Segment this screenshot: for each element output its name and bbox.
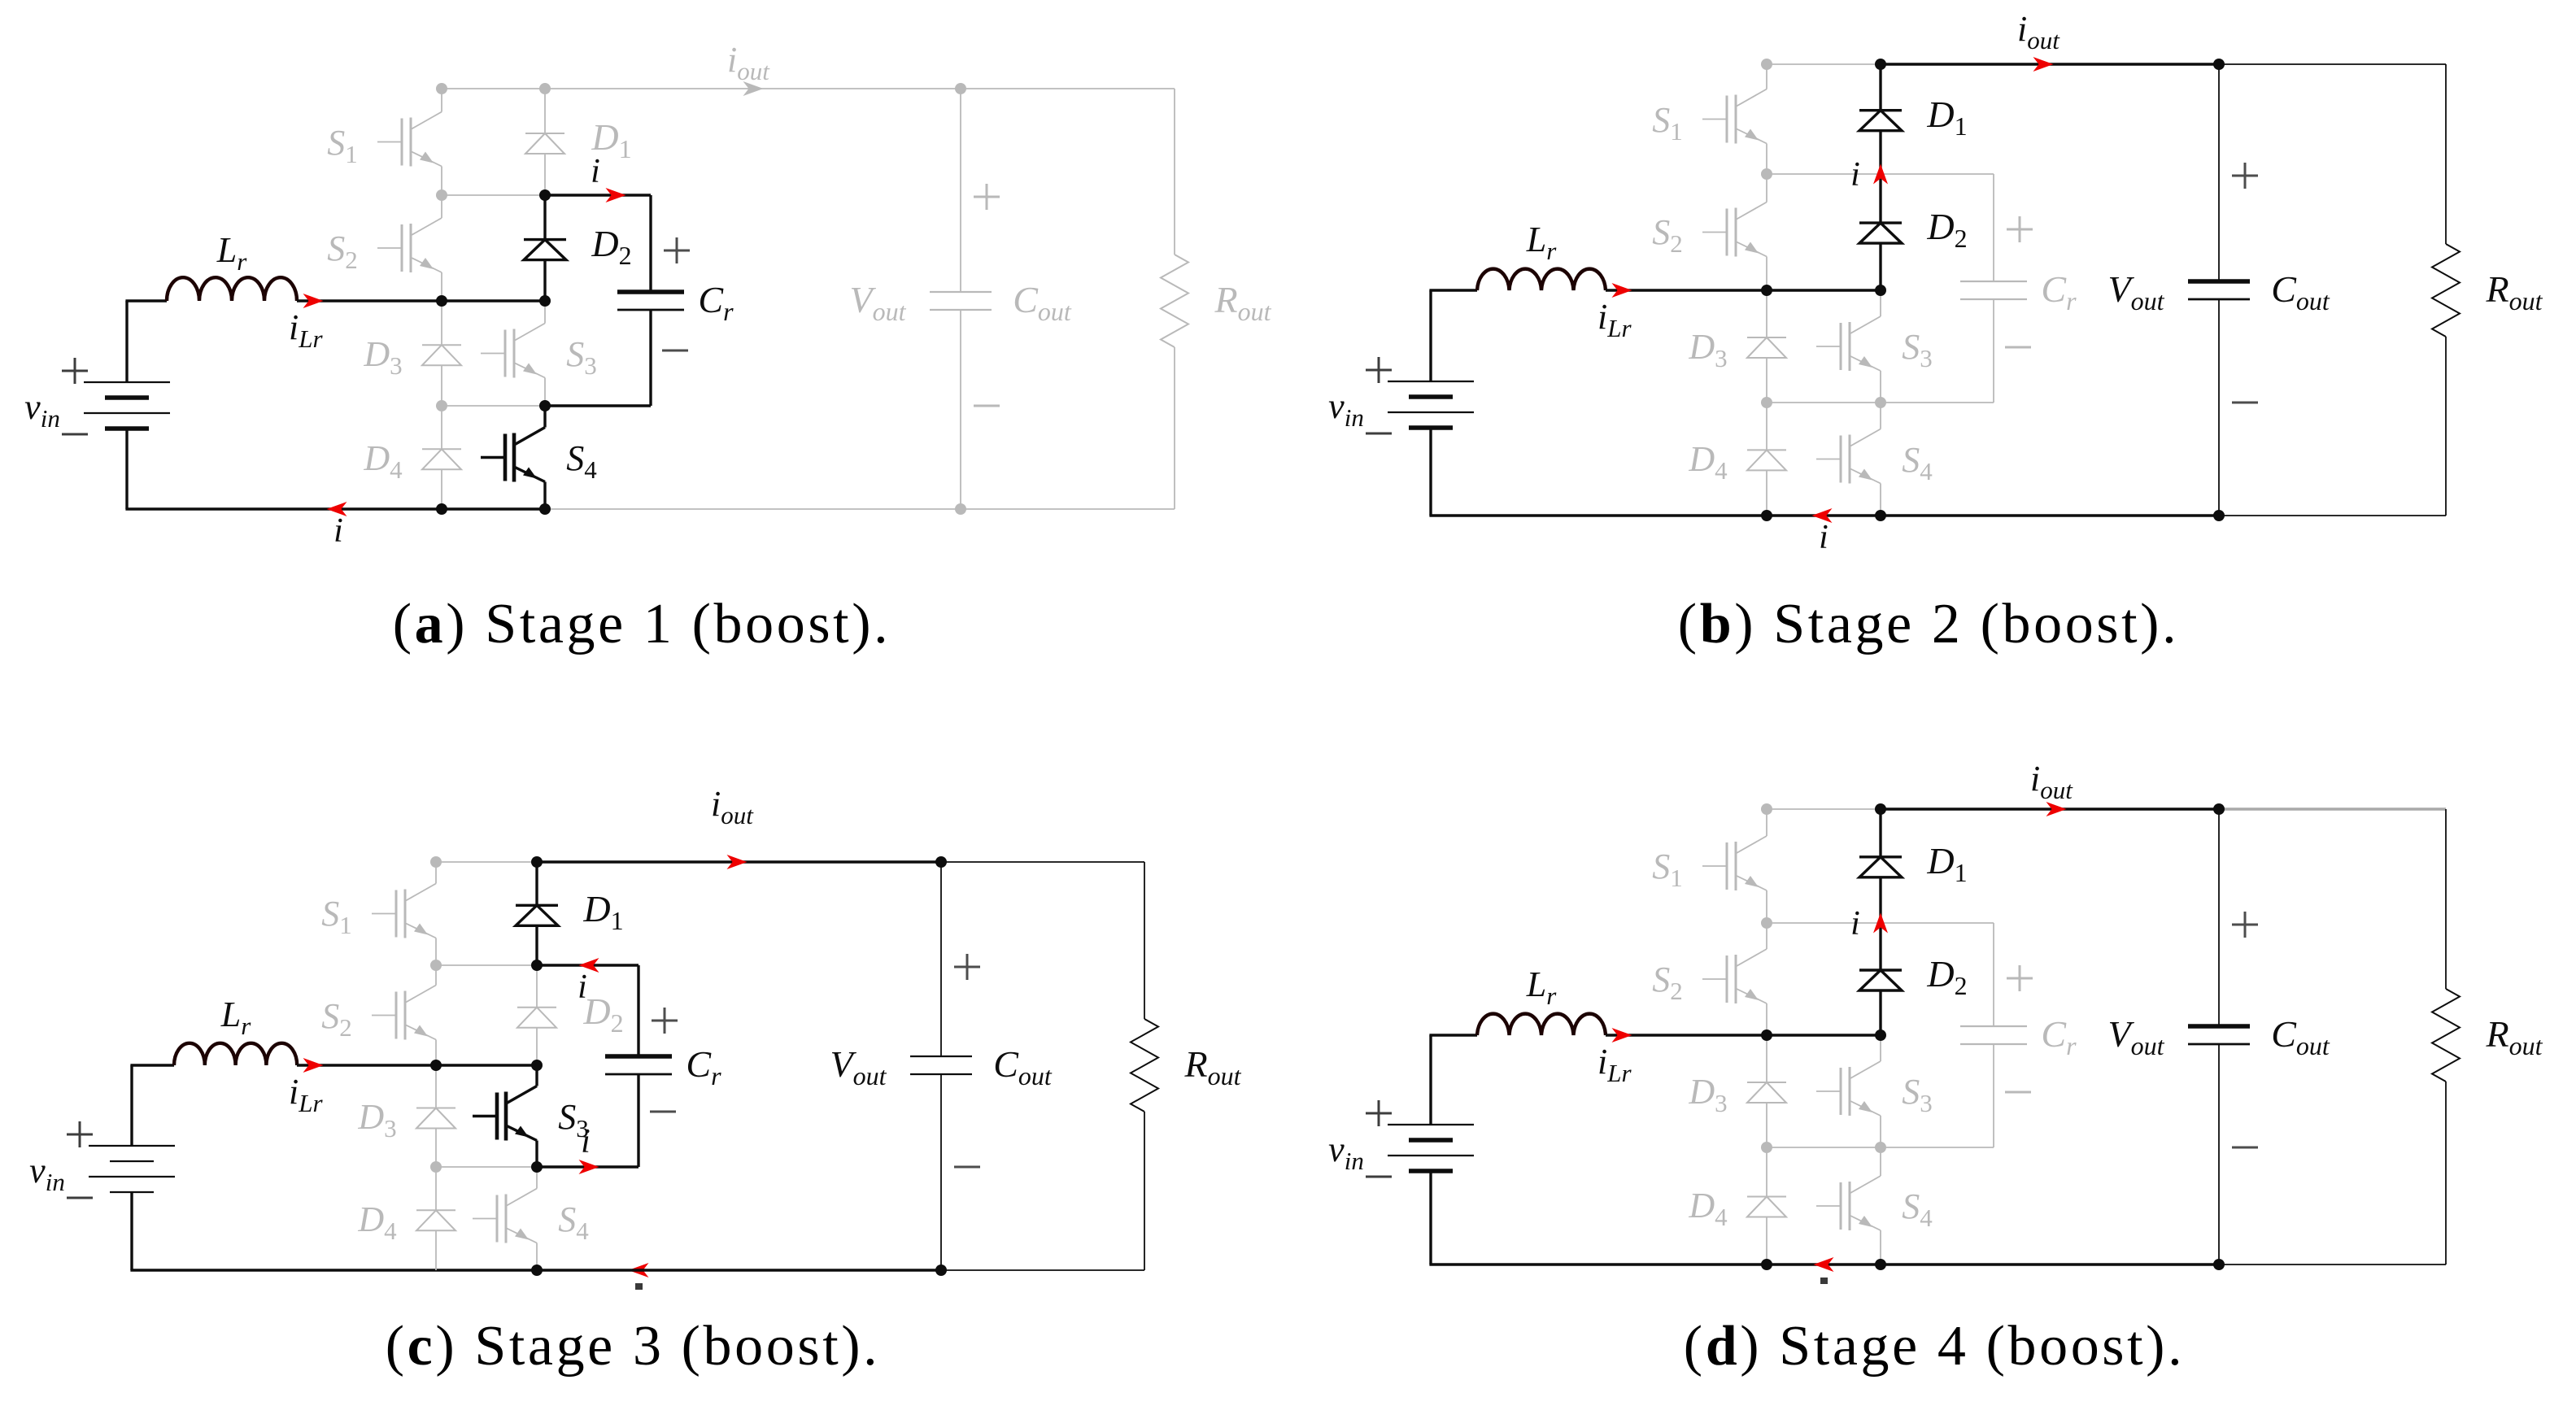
- minus sign at Cr (a): [662, 350, 688, 352]
- svg-text:S2: S2: [1652, 212, 1683, 258]
- row wire: S-column to D-column at S3-S4 junction (d): [1767, 1147, 1881, 1148]
- battery plus sign (a): [62, 358, 88, 384]
- svg-text:i: i: [1850, 905, 1860, 942]
- minus sign at Cr (b): [2005, 346, 2031, 349]
- top rail: S-column to D-column (b): [1767, 63, 1881, 65]
- wire: Cout column (a): [960, 89, 961, 292]
- plus sign at Cr (d): [2007, 965, 2033, 991]
- top rail: D-column to output (a): [545, 88, 961, 89]
- battery v_in (a): [84, 382, 170, 429]
- capacitor Cout (a): [930, 292, 992, 310]
- bottom rail: S-column to D-column (b): [1767, 514, 1881, 516]
- node row2 left (d): [1761, 917, 1772, 929]
- top rail: D-column to output (b): [1881, 63, 2219, 65]
- current arrow i_Lr (c): [303, 1058, 324, 1073]
- wire: load corner down to resistor (d): [2445, 809, 2447, 989]
- wire: load corner down to resistor (c): [1144, 862, 1145, 1019]
- bottom current arrow i (d): [1814, 1257, 1834, 1272]
- top rail: output to load corner (a): [961, 88, 1175, 89]
- wire: battery + terminal to inductor (a): [125, 301, 128, 382]
- transistor S4 (c): [473, 1171, 537, 1266]
- node row4 left (c): [430, 1161, 442, 1173]
- node top left (d): [1761, 803, 1772, 815]
- node bottom D-column (c): [531, 1265, 543, 1276]
- current arrow i_out (c): [727, 855, 748, 869]
- row wire: S-column to D-column at S3-S4 junction (a): [442, 405, 545, 407]
- svg-text:D1: D1: [582, 888, 623, 935]
- main wire: inductor to D-column (c): [297, 1064, 537, 1066]
- battery v_in (b): [1388, 381, 1474, 428]
- wire: load corner down to resistor (a): [1174, 89, 1175, 255]
- svg-text:Lr: Lr: [1526, 964, 1557, 1010]
- wire: battery + terminal to inductor (c): [130, 1065, 133, 1146]
- node bottom output (d): [2213, 1259, 2225, 1270]
- svg-text:S2: S2: [327, 229, 358, 274]
- capacitor Cr (d): [1960, 1026, 2027, 1044]
- svg-text:Cout: Cout: [2271, 1013, 2330, 1060]
- svg-text:iLr: iLr: [289, 1072, 323, 1117]
- node top left (b): [1761, 59, 1772, 70]
- battery plus sign (c): [67, 1121, 93, 1147]
- wire: resistor to bottom rail (b): [2445, 337, 2447, 516]
- svg-text:iout: iout: [2030, 759, 2073, 804]
- wire: Cout column (c): [940, 862, 942, 1056]
- wire: row to Cr top elbow (b): [1881, 173, 1994, 175]
- svg-text:D1: D1: [1926, 94, 1967, 141]
- node top output (b): [2213, 59, 2225, 70]
- wire: Cout column (d): [2218, 809, 2220, 1026]
- svg-text:Vout: Vout: [2108, 268, 2165, 316]
- bottom rail: output to load (c): [941, 1269, 1144, 1271]
- diode D2 (d): [1859, 923, 1902, 1035]
- svg-text:D4: D4: [1688, 439, 1728, 485]
- inductor Lr (b): [1477, 269, 1606, 290]
- row wire: S-column to D-column at D1-D2 junction (d): [1767, 922, 1881, 924]
- battery plus sign (d): [1366, 1100, 1392, 1126]
- node bottom output (c): [935, 1265, 947, 1276]
- wire: load corner down to resistor (b): [2445, 64, 2447, 244]
- svg-text:D1: D1: [1926, 840, 1967, 887]
- node row4 left (d): [1761, 1142, 1772, 1153]
- bottom rail: D-column to output (b): [1881, 514, 2219, 516]
- transistor S1 (d): [1702, 813, 1767, 919]
- bottom rail: battery to S-column (d): [1429, 1263, 1767, 1265]
- diode D3 (b): [1747, 290, 1786, 403]
- node top D-column (a): [539, 83, 551, 94]
- svg-text:S1: S1: [321, 894, 352, 939]
- minus sign at Cout (a): [974, 405, 1000, 407]
- transistor S3 (b): [1816, 294, 1881, 398]
- svg-text:vin: vin: [1328, 386, 1364, 432]
- svg-text:D3: D3: [357, 1097, 396, 1143]
- svg-text:Cr: Cr: [2041, 1013, 2077, 1060]
- svg-text:Cout: Cout: [1013, 279, 1072, 326]
- svg-text:Vout: Vout: [850, 279, 907, 326]
- transistor S1 (a): [377, 93, 442, 191]
- row wire: S-column to D-column at S3-S4 junction (c): [436, 1166, 537, 1168]
- current arrow i_Lr (a): [303, 294, 324, 308]
- svg-text:Rout: Rout: [1184, 1043, 1242, 1090]
- svg-text:Vout: Vout: [830, 1043, 887, 1090]
- main wire: inductor to D-column (d): [1606, 1034, 1881, 1036]
- diode D2 (a): [524, 195, 566, 301]
- diode D2 (c): [517, 965, 556, 1065]
- transistor S4 (b): [1816, 407, 1881, 511]
- node row4 D-column (b): [1875, 397, 1886, 408]
- svg-text:i: i: [578, 969, 587, 1006]
- svg-text:D4: D4: [1688, 1186, 1728, 1231]
- capacitor Cout (d): [2188, 1026, 2250, 1044]
- plus sign at Cout (c): [954, 954, 980, 980]
- diode D3 (c): [416, 1065, 455, 1167]
- svg-text:iLr: iLr: [1597, 1042, 1632, 1087]
- svg-text:i: i: [581, 1123, 591, 1160]
- svg-text:D2: D2: [1926, 206, 1967, 253]
- current arrow i at D1-D2 node (b): [1873, 164, 1888, 185]
- node top left (c): [430, 856, 442, 868]
- wire: resistor to bottom rail (c): [1144, 1112, 1145, 1270]
- svg-text:D4: D4: [363, 438, 403, 484]
- wire: D1-D2 node to Cr top elbow (c): [537, 964, 639, 966]
- svg-text:iout: iout: [727, 40, 770, 85]
- current arrow i_Lr (d): [1612, 1028, 1632, 1043]
- node bottom D-column (d): [1875, 1259, 1886, 1270]
- svg-text:S4: S4: [558, 1199, 589, 1245]
- plus sign at Cout (b): [2232, 163, 2258, 189]
- bottom rail: S-column to D-column (a): [442, 507, 545, 510]
- node row4 D-column (a): [539, 400, 551, 411]
- svg-text:Lr: Lr: [220, 995, 251, 1040]
- transistor S2 (a): [377, 199, 442, 297]
- node row4 D-column (d): [1875, 1142, 1886, 1153]
- transistor S1 (b): [1702, 68, 1767, 170]
- node bottom output (a): [955, 503, 966, 515]
- main wire: inductor to D-column (b): [1606, 289, 1881, 291]
- wire: battery - terminal to bottom rail (c): [130, 1192, 133, 1270]
- battery v_in (c): [89, 1146, 175, 1192]
- row wire: S-column to D-column at S3-S4 junction (b): [1767, 402, 1881, 403]
- bottom rail: S-column to D-column (c): [436, 1269, 537, 1271]
- inductor Lr (d): [1477, 1014, 1606, 1035]
- bottom current arrow i (b): [1812, 508, 1833, 523]
- svg-text:i: i: [1819, 519, 1828, 556]
- top rail: output to load corner (c): [941, 861, 1144, 863]
- minus sign at Cr (d): [2005, 1091, 2031, 1094]
- plus sign at Cr (c): [652, 1008, 678, 1034]
- top rail: output to load corner (d): [2219, 807, 2446, 810]
- svg-text:S1: S1: [1652, 100, 1683, 146]
- svg-text:Cr: Cr: [2041, 268, 2077, 316]
- node bottom left (a): [436, 503, 447, 515]
- node main D-column (d): [1875, 1029, 1886, 1041]
- row wire: S-column to D-column at D1-D2 junction (c): [436, 964, 537, 966]
- top rail: D-column to output (d): [1881, 807, 2219, 810]
- svg-text:D4: D4: [357, 1199, 397, 1245]
- top rail: S-column to D-column (c): [436, 861, 537, 863]
- wire: battery - terminal to bottom rail (d): [1429, 1171, 1432, 1265]
- wire: Cr bottom to S3-S4 node row (b): [1993, 299, 1994, 403]
- svg-text:Vout: Vout: [2108, 1013, 2165, 1060]
- svg-text:vin: vin: [29, 1151, 65, 1196]
- battery minus sign (c): [67, 1197, 93, 1199]
- wire: Cr bottom to S3-S4 node row (d): [1993, 1044, 1994, 1147]
- battery v_in (d): [1388, 1125, 1474, 1171]
- wire: resistor to bottom rail (d): [2445, 1082, 2447, 1265]
- svg-text:S4: S4: [1902, 440, 1933, 485]
- capacitor Cr (a): [617, 292, 684, 310]
- transistor S2 (c): [372, 969, 436, 1061]
- transistor S2 (b): [1702, 178, 1767, 286]
- plus sign at Cout (a): [974, 184, 1000, 210]
- diode D4 (c): [416, 1167, 455, 1270]
- resistor Rout (b): [2432, 244, 2460, 337]
- bottom rail: D-column to output (d): [1881, 1263, 2219, 1265]
- svg-text:D3: D3: [363, 334, 402, 380]
- svg-text:S3: S3: [1902, 327, 1933, 372]
- capacitor Cr (b): [1960, 281, 2027, 299]
- wire: battery - terminal to bottom rail (a): [125, 429, 128, 509]
- svg-text:S2: S2: [321, 996, 352, 1042]
- row wire: S-column to D-column at D1-D2 junction (b): [1767, 173, 1881, 175]
- top rail: S-column to D-column (d): [1767, 808, 1881, 810]
- svg-text:S1: S1: [327, 123, 358, 168]
- svg-text:S3: S3: [566, 334, 597, 380]
- node top D-column (c): [531, 856, 543, 868]
- bottom rail: battery to S-column (b): [1429, 514, 1767, 516]
- battery minus sign (a): [62, 433, 88, 436]
- node row2 left (b): [1761, 168, 1772, 180]
- svg-text:Cout: Cout: [2271, 268, 2330, 316]
- diode D4 (d): [1747, 1147, 1786, 1265]
- clipped label i at bottom rail (d): [1820, 1278, 1828, 1284]
- svg-text:iLr: iLr: [289, 307, 323, 353]
- wire: battery + terminal to inductor (b): [1429, 290, 1432, 381]
- svg-text:D3: D3: [1688, 327, 1727, 372]
- diode D1 (a): [525, 89, 564, 195]
- minus sign at Cout (c): [954, 1166, 980, 1169]
- node top left (a): [436, 83, 447, 94]
- bottom rail: battery to S-column (c): [130, 1269, 436, 1271]
- svg-text:i: i: [591, 153, 600, 190]
- current arrow i_out (d): [2046, 802, 2067, 816]
- row wire: S-column to D-column at D1-D2 junction (a): [442, 194, 545, 196]
- transistor S2 (d): [1702, 927, 1767, 1031]
- node main left (c): [430, 1060, 442, 1071]
- capacitor Cout (b): [2188, 281, 2250, 299]
- node top output (c): [935, 856, 947, 868]
- svg-text:iout: iout: [2017, 9, 2060, 54]
- node bottom output (b): [2213, 510, 2225, 521]
- current arrow i_Lr (b): [1612, 283, 1632, 298]
- minus sign at Cr (c): [650, 1111, 676, 1113]
- svg-text:Cout: Cout: [993, 1043, 1053, 1090]
- current arrow i_out (b): [2033, 57, 2054, 72]
- transistor S3 (d): [1816, 1039, 1881, 1143]
- node top output (d): [2213, 803, 2225, 815]
- svg-text:Cr: Cr: [686, 1043, 721, 1090]
- diode D4 (a): [422, 406, 461, 509]
- node main D-column (c): [531, 1060, 543, 1071]
- wire: resistor to bottom rail (a): [1174, 347, 1175, 509]
- inductor Lr (a): [167, 277, 297, 301]
- diode D3 (d): [1747, 1035, 1786, 1147]
- diode D4 (b): [1747, 403, 1786, 516]
- svg-text:Rout: Rout: [2486, 268, 2543, 316]
- node row2 left (c): [430, 960, 442, 971]
- node main left (b): [1761, 285, 1772, 296]
- svg-text:Rout: Rout: [1214, 279, 1272, 326]
- svg-text:D2: D2: [582, 990, 623, 1038]
- battery minus sign (d): [1366, 1176, 1392, 1178]
- svg-text:(a) Stage 1 (boost).: (a) Stage 1 (boost).: [393, 593, 891, 655]
- svg-text:iout: iout: [711, 784, 754, 829]
- bottom current arrow i (a): [327, 502, 347, 516]
- node top D-column (b): [1875, 59, 1886, 70]
- svg-text:Lr: Lr: [216, 230, 247, 276]
- plus sign at Cout (d): [2232, 912, 2258, 938]
- top rail: D-column to output (c): [537, 860, 941, 863]
- bottom current arrow i (c): [629, 1263, 649, 1278]
- top rail: output to load corner (b): [2219, 63, 2446, 65]
- node row4 D-column (c): [531, 1161, 543, 1173]
- current arrow i_out (a): [743, 81, 764, 96]
- transistor S4 (d): [1816, 1151, 1881, 1260]
- wire: Cr bottom to S3-S4 node (a): [649, 310, 652, 406]
- svg-text:iLr: iLr: [1597, 297, 1632, 342]
- node row2 left (a): [436, 189, 447, 201]
- node main D-column (a): [539, 295, 551, 307]
- svg-text:D3: D3: [1688, 1072, 1727, 1117]
- node top output (a): [955, 83, 966, 94]
- svg-text:Rout: Rout: [2486, 1013, 2543, 1060]
- wire: Cout column (b): [2218, 64, 2220, 281]
- node bottom D-column (b): [1875, 510, 1886, 521]
- node row4 left (a): [436, 400, 447, 411]
- bottom rail: S-column to D-column (d): [1767, 1263, 1881, 1265]
- capacitor Cr (c): [605, 1056, 672, 1074]
- transistor S4 (a): [481, 410, 545, 505]
- wire: Cr bottom to S3-S4 node (c): [637, 1074, 639, 1167]
- svg-text:D2: D2: [591, 223, 631, 270]
- wire: row to Cr top elbow (d): [1881, 922, 1994, 924]
- bottom rail: output to load (a): [961, 508, 1175, 510]
- transistor S1 (c): [372, 866, 436, 961]
- node bottom left (b): [1761, 510, 1772, 521]
- svg-text:Cr: Cr: [698, 279, 734, 326]
- minus sign at Cout (b): [2232, 402, 2258, 404]
- diode D1 (c): [516, 862, 558, 965]
- battery minus sign (b): [1366, 433, 1392, 435]
- svg-text:(b) Stage 2 (boost).: (b) Stage 2 (boost).: [1678, 593, 2179, 655]
- bottom rail: D-column to output (a): [545, 508, 961, 510]
- capacitor Cout (c): [910, 1056, 972, 1074]
- bottom rail: output to load (b): [2219, 515, 2446, 516]
- diode D3 (a): [422, 301, 461, 406]
- bottom rail: battery to S-column (a): [125, 507, 442, 510]
- node main left (a): [436, 295, 447, 307]
- wire: battery + terminal to inductor (d): [1429, 1035, 1432, 1125]
- diode D1 (d): [1859, 809, 1902, 923]
- minus sign at Cout (d): [2232, 1147, 2258, 1149]
- current arrow i into Cr (a): [606, 188, 626, 202]
- node row4 left (b): [1761, 397, 1772, 408]
- node row2 D-column (c): [531, 960, 543, 971]
- node row2 D-column (a): [539, 189, 551, 201]
- inductor Lr (c): [174, 1043, 297, 1065]
- current arrow i at D1-D2 node (d): [1873, 913, 1888, 934]
- top rail: S-column to D-column (a): [442, 88, 545, 89]
- svg-text:S1: S1: [1652, 847, 1683, 892]
- node top D-column (d): [1875, 803, 1886, 815]
- svg-text:S4: S4: [1902, 1186, 1933, 1232]
- node bottom D-column (a): [539, 503, 551, 515]
- bottom rail: output to load (d): [2219, 1264, 2446, 1265]
- node main left (d): [1761, 1029, 1772, 1041]
- bottom rail: D-column to output (c): [537, 1269, 941, 1271]
- svg-text:i: i: [1850, 156, 1860, 194]
- svg-text:S3: S3: [1902, 1072, 1933, 1117]
- svg-text:i: i: [333, 512, 343, 550]
- resistor Rout (a): [1161, 255, 1188, 347]
- wire: battery - terminal to bottom rail (b): [1429, 428, 1432, 516]
- main wire: inductor to D-column (a): [297, 299, 545, 302]
- current arrow i out of Cr (c): [579, 958, 599, 973]
- current arrow i at S3 output (c): [579, 1160, 599, 1174]
- resistor Rout (d): [2432, 989, 2460, 1082]
- diode D2 (b): [1859, 174, 1902, 290]
- node main D-column (b): [1875, 285, 1886, 296]
- plus sign at Cr (b): [2007, 216, 2033, 242]
- wire: D1-D2 node to Cr top elbow (a): [545, 194, 651, 196]
- battery plus sign (b): [1366, 357, 1392, 383]
- svg-text:S2: S2: [1652, 960, 1683, 1005]
- svg-text:D2: D2: [1926, 953, 1967, 1000]
- svg-text:S4: S4: [566, 438, 597, 484]
- transistor S3 (c): [473, 1069, 537, 1163]
- plus sign at Cr (a): [664, 237, 690, 263]
- clipped label i at bottom rail (c): [635, 1283, 643, 1290]
- node bottom left (d): [1761, 1259, 1772, 1270]
- diode D1 (b): [1859, 64, 1902, 174]
- svg-text:vin: vin: [1328, 1130, 1364, 1175]
- svg-text:(d) Stage 4 (boost).: (d) Stage 4 (boost).: [1684, 1315, 2185, 1378]
- svg-text:Lr: Lr: [1526, 220, 1557, 265]
- svg-text:(c) Stage 3 (boost).: (c) Stage 3 (boost).: [386, 1315, 881, 1378]
- svg-text:vin: vin: [24, 387, 60, 433]
- resistor Rout (c): [1131, 1019, 1158, 1112]
- transistor S3 (a): [481, 305, 545, 402]
